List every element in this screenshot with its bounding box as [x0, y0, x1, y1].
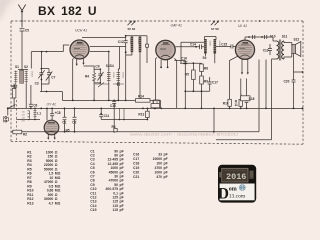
capacitor C21 — [265, 35, 267, 39]
svg-text:R8: R8 — [204, 66, 208, 70]
capacitor C15 — [216, 44, 235, 48]
chassis dashed border — [11, 21, 303, 144]
svg-text:100: 100 — [156, 161, 162, 165]
capacitor C18 — [241, 96, 250, 101]
svg-text:46383: 46383 — [122, 72, 124, 79]
IF2 top bar — [205, 37, 217, 40]
svg-text:MΩ: MΩ — [55, 201, 61, 205]
svg-text:C9: C9 — [95, 64, 99, 68]
svg-text:4,7: 4,7 — [49, 201, 54, 205]
resistor R2 — [13, 130, 22, 134]
svg-text:S9: S9 — [203, 56, 207, 60]
svg-text:470: 470 — [156, 175, 162, 179]
heater wire V4 — [46, 108, 48, 120]
capacitor C1 — [63, 108, 67, 132]
svg-text:C7: C7 — [51, 76, 55, 80]
svg-text:1000: 1000 — [154, 170, 162, 174]
badge — [218, 165, 256, 203]
svg-text:L1: L1 — [37, 111, 41, 115]
antenna coil top bar — [18, 69, 28, 70]
capacitor C2 — [73, 108, 77, 132]
svg-text:pF: pF — [164, 166, 168, 170]
HT verticals right — [259, 60, 266, 132]
svg-text:4700: 4700 — [154, 166, 162, 170]
resistor R9 — [200, 76, 204, 84]
svg-text:11: 11 — [234, 103, 238, 107]
wires IF1 coils — [126, 36, 140, 101]
wire V1 plate top line — [82, 37, 126, 39]
wire V1 plate line — [90, 46, 126, 48]
capacitor C7 trimmer — [41, 69, 52, 84]
svg-text:BX 182 U: BX 182 U — [38, 4, 97, 18]
svg-text:C20: C20 — [133, 170, 139, 174]
svg-text:R12: R12 — [12, 85, 18, 89]
detector line — [180, 62, 202, 64]
capacitor C13a block — [151, 104, 160, 108]
bottom rail y=132 — [11, 131, 259, 133]
resistor R7 — [154, 100, 160, 105]
svg-text:S11: S11 — [282, 34, 288, 38]
svg-text:R9: R9 — [204, 79, 208, 83]
svg-text:pF: pF — [120, 208, 124, 212]
svg-text:C17: C17 — [133, 157, 139, 161]
svg-text:S3S4: S3S4 — [106, 64, 114, 68]
capacitor C6 — [29, 85, 33, 108]
coil S1 — [14, 71, 17, 84]
svg-text:UL 41: UL 41 — [238, 24, 247, 28]
svg-text:UY 41: UY 41 — [47, 103, 56, 107]
wire screen jog — [181, 42, 205, 63]
svg-text:om: om — [229, 186, 237, 192]
svg-text:pF: pF — [164, 170, 168, 174]
parts list resistors — [27, 150, 60, 205]
antenna coil core — [20, 70, 24, 83]
svg-text:C3: C3 — [35, 82, 39, 86]
wire osc drop — [119, 47, 121, 70]
wire V2 right pin down — [174, 58, 177, 108]
svg-text:C5: C5 — [25, 29, 29, 33]
wire V3 grid down — [230, 56, 238, 99]
svg-text:C1: C1 — [62, 120, 66, 124]
svg-text:C14: C14 — [190, 43, 196, 47]
wire tuning drops — [30, 52, 32, 69]
svg-text:C12: C12 — [118, 40, 124, 44]
svg-text:pF: pF — [164, 175, 168, 179]
svg-text:UCH 41: UCH 41 — [75, 29, 87, 33]
svg-text:46386: 46386 — [137, 38, 139, 45]
capacitor C8 electrolytic — [50, 108, 54, 120]
mains plug — [7, 108, 9, 115]
svg-text:D: D — [218, 185, 229, 202]
svg-text:pF: pF — [164, 157, 168, 161]
svg-text:S12: S12 — [294, 37, 300, 41]
tuning arrows S5 S6 — [128, 21, 219, 26]
wires osc coils to rail — [109, 52, 120, 101]
svg-text:C19: C19 — [133, 166, 139, 170]
svg-text:C10: C10 — [110, 104, 116, 108]
svg-text:R13: R13 — [138, 112, 144, 116]
IF1 top bar — [126, 35, 147, 37]
B+ rail y=108.4 — [8, 107, 303, 109]
wire V1 screen line — [90, 51, 109, 53]
svg-text:C18: C18 — [249, 97, 255, 101]
svg-text:2016: 2016 — [226, 172, 246, 182]
capacitor C10 — [112, 100, 116, 131]
parts list capacitors column 2 — [133, 153, 168, 179]
svg-text:C16: C16 — [133, 153, 139, 157]
tube V2 pins — [161, 60, 168, 67]
transformer core — [280, 40, 281, 61]
mains cord dashed boundary — [15, 100, 17, 142]
tube V1 UCH41 — [70, 40, 89, 59]
mains switch — [8, 105, 16, 109]
svg-text:115: 115 — [113, 208, 119, 212]
speaker return wire — [294, 54, 303, 81]
svg-text:13.com: 13.com — [229, 194, 246, 200]
svg-text:+C8: +C8 — [55, 111, 61, 115]
svg-text:S5 S6: S5 S6 — [128, 27, 136, 31]
wire grid rail y=51.6 left — [31, 45, 69, 52]
tuning bus y=91.5 — [40, 92, 62, 101]
svg-text:S7 S8: S7 S8 — [211, 27, 219, 31]
svg-text:UAF 41: UAF 41 — [171, 24, 183, 28]
coil S3 — [107, 71, 111, 82]
IF1 coil S6 — [139, 37, 142, 53]
svg-text:C2: C2 — [72, 120, 76, 124]
parts list capacitors column 1 — [90, 149, 123, 212]
node on grid rail — [41, 51, 43, 53]
capacitor C13 — [146, 44, 149, 47]
capacitor C17 — [208, 77, 212, 91]
svg-text:C6: C6 — [33, 103, 37, 107]
screen line y=100.4 — [62, 99, 160, 101]
svg-text:46387: 46387 — [209, 41, 211, 48]
svg-text:46385: 46385 — [129, 38, 131, 45]
svg-text:S2: S2 — [24, 65, 28, 69]
capacitor C11 electrolytic — [99, 108, 103, 119]
svg-text:C17: C17 — [212, 80, 218, 84]
svg-text:www.doctsf.com · documentation: www.doctsf.com · documentation BX182U — [130, 133, 239, 137]
tube V4 bottom pins — [48, 134, 54, 138]
svg-text:33: 33 — [158, 153, 162, 157]
tube V1 pins — [77, 59, 84, 65]
wire x=214 — [213, 108, 215, 132]
antenna — [18, 5, 25, 28]
svg-text:C18: C18 — [133, 161, 139, 165]
wires IF2 bottoms — [205, 53, 214, 64]
capacitor on HT line — [253, 35, 255, 39]
svg-text:R5: R5 — [185, 72, 189, 76]
tube V3 pins — [242, 59, 248, 73]
tube V3 UL41 — [235, 40, 254, 59]
wire V1 cathode left — [72, 58, 75, 100]
svg-text:C15: C15 — [221, 42, 227, 46]
coil S2 — [25, 71, 28, 84]
tube V4 UY41 rectifier — [44, 120, 59, 135]
AVC rail y=119.5 — [101, 119, 147, 121]
svg-text:pF: pF — [164, 153, 168, 157]
svg-text:C20: C20 — [284, 79, 290, 83]
wire V2 plate line with capacitor C14 — [176, 44, 205, 49]
coil S4 — [117, 71, 121, 82]
svg-text:R13: R13 — [27, 201, 33, 205]
band switch on rail — [95, 82, 124, 87]
svg-text:R14: R14 — [138, 95, 144, 99]
IF1 coil S5 — [131, 37, 134, 53]
capacitor C3 variable — [38, 52, 44, 92]
IF2 coil S9 — [214, 39, 217, 54]
svg-text:R2: R2 — [23, 132, 27, 136]
wire V2 cathode left — [156, 58, 157, 101]
resistor R8 — [200, 64, 204, 72]
svg-text:S1: S1 — [15, 65, 19, 69]
svg-text:C15: C15 — [90, 208, 96, 212]
tube V2 UAF41 — [156, 40, 175, 59]
detector bus y=91.3 — [185, 90, 209, 92]
svg-text:C16: C16 — [181, 57, 187, 61]
svg-text:10000: 10000 — [153, 157, 163, 161]
svg-text:C19: C19 — [263, 49, 269, 53]
wire S2 bottom down — [16, 84, 26, 109]
svg-text:C11: C11 — [104, 114, 110, 118]
svg-text:R4: R4 — [85, 75, 89, 79]
svg-text:46384: 46384 — [112, 72, 114, 79]
osc tank loop — [84, 66, 101, 100]
IF2 coil S8 — [204, 39, 207, 54]
svg-text:C21: C21 — [133, 175, 139, 179]
capacitor C5 — [20, 29, 25, 69]
svg-text:pF: pF — [164, 161, 168, 165]
tube V3 top cap line — [245, 37, 273, 40]
svg-text:46381: 46381 — [31, 71, 33, 78]
